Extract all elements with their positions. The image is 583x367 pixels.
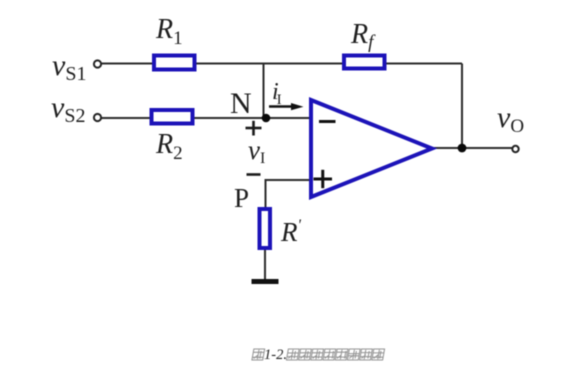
svg-text:N: N — [230, 87, 252, 120]
svg-text:vS2: vS2 — [51, 91, 85, 127]
svg-text:Rf: Rf — [350, 19, 376, 53]
svg-text:1-2.: 1-2. — [264, 347, 287, 363]
svg-text:R1: R1 — [155, 14, 183, 49]
svg-text:R': R' — [280, 217, 302, 247]
svg-text:vS1: vS1 — [52, 49, 86, 85]
svg-text:vI: vI — [248, 135, 265, 167]
svg-text:R2: R2 — [155, 129, 183, 164]
svg-text:vO: vO — [497, 101, 524, 137]
svg-text:P: P — [234, 183, 249, 213]
svg-text:iI: iI — [272, 79, 282, 108]
